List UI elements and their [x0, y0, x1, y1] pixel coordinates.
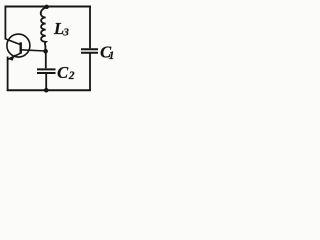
- transistor Q1 emitter arrow: [9, 54, 16, 61]
- wire right edge upper: [89, 6, 91, 49]
- transistor Q1 base bar: [20, 42, 22, 53]
- transistor Q1 emitter lead: [8, 53, 21, 59]
- svg-text:C: C: [57, 63, 69, 82]
- inductor L3 coil: [41, 7, 47, 51]
- capacitor C2 top plate: [37, 68, 56, 70]
- capacitor C1 top plate: [81, 48, 98, 50]
- node dot bottom (C2 bottom junction): [44, 88, 49, 93]
- wire top: [5, 6, 92, 8]
- capacitor C2 bottom lead: [45, 74, 47, 91]
- svg-text:2: 2: [68, 70, 75, 82]
- wire left lower (emitter to bottom rail): [7, 57, 9, 92]
- transistor Q1 collector lead: [6, 39, 21, 45]
- capacitor C2 top lead: [45, 51, 47, 68]
- node dot top (L3 top junction): [45, 5, 49, 9]
- wire left upper (collector to top rail): [4, 6, 6, 40]
- wire right edge lower: [89, 53, 91, 91]
- transistor Q1 circle: [7, 34, 30, 57]
- svg-text:3: 3: [62, 26, 69, 38]
- svg-text:1: 1: [109, 50, 115, 62]
- wire bottom: [7, 89, 91, 91]
- node dot middle (base/L3/C2 junction): [43, 49, 48, 54]
- capacitor C1 bottom plate: [81, 52, 98, 54]
- capacitor C2 bottom plate: [37, 72, 56, 74]
- wire base to node: [21, 50, 46, 51]
